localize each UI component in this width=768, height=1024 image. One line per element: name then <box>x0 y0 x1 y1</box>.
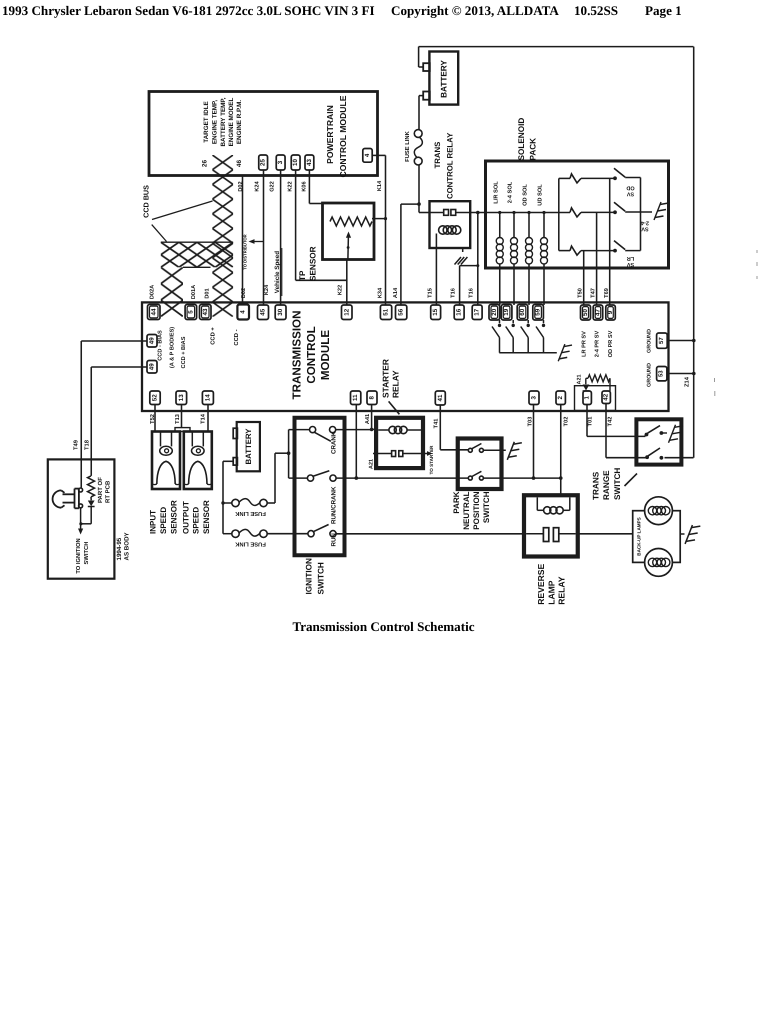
diode (key switch box) <box>79 497 94 526</box>
TCM pin 1 <box>583 391 591 405</box>
labels LR/2-4/OD PR SV <box>582 330 615 357</box>
label A21 starter <box>368 459 374 469</box>
svg-text:SWITCH: SWITCH <box>317 562 326 594</box>
svg-text:POSITION: POSITION <box>472 491 481 529</box>
TCM pin 11 <box>351 391 361 405</box>
PNP lower contact set <box>468 471 483 480</box>
svg-text:D02: D02 <box>241 288 247 298</box>
header version <box>574 3 618 18</box>
svg-text:SPEED: SPEED <box>192 507 201 534</box>
transmission control module box <box>142 302 669 411</box>
svg-text:G22: G22 <box>270 181 276 192</box>
label A21 <box>577 375 583 385</box>
wire D02 (PCM to TCM 4) <box>242 176 244 306</box>
wire K22 (PCM 10 to TCM 12 via TP sensor) <box>296 170 347 305</box>
svg-text:19: 19 <box>503 308 510 315</box>
output speed sensor <box>184 432 212 490</box>
svg-text:T14: T14 <box>201 413 207 424</box>
fuse link (run/crank feed) <box>223 499 267 507</box>
svg-text:T13: T13 <box>175 414 181 424</box>
PCM pin 3 <box>276 155 285 170</box>
svg-text:TRANS: TRANS <box>592 471 601 500</box>
PARK NEUTRAL POSITION SWITCH label <box>452 491 491 529</box>
svg-text:PARK: PARK <box>452 491 461 513</box>
svg-text:ENGINE R.P.M.: ENGINE R.P.M. <box>236 100 243 145</box>
svg-text:REVERSE: REVERSE <box>536 563 546 604</box>
svg-text:8: 8 <box>369 395 376 399</box>
wire fuse link to trans control relay <box>419 165 430 213</box>
svg-text:20: 20 <box>491 308 498 315</box>
svg-text:2: 2 <box>557 395 564 399</box>
TCM internal ground <box>558 344 572 361</box>
svg-text:FUSE LINK: FUSE LINK <box>234 541 265 548</box>
svg-text:TRANS: TRANS <box>433 142 442 169</box>
key switch contacts <box>79 488 83 508</box>
TCM pin 19 <box>501 305 512 321</box>
wire T03 (TCM 3) <box>533 405 535 479</box>
svg-text:TO STARTER: TO STARTER <box>429 445 434 475</box>
svg-text:OD PR SV: OD PR SV <box>608 330 614 357</box>
label K24 upper <box>255 180 261 191</box>
svg-text:K24: K24 <box>264 284 270 295</box>
pressure switch branch LR (bottom) <box>559 246 614 255</box>
SOLENOID PACK label <box>517 118 538 161</box>
svg-text:D01: D01 <box>205 288 211 298</box>
starter relay contact <box>373 451 423 457</box>
reverse lamp relay contact <box>526 528 576 542</box>
svg-text:T01: T01 <box>588 417 594 427</box>
TCM pin 16 <box>454 305 464 320</box>
label T52 <box>150 414 156 424</box>
TCM pin 42 <box>602 391 610 404</box>
GROUND labels <box>646 329 652 387</box>
svg-text:BACK-UP LAMPS: BACK-UP LAMPS <box>637 517 642 555</box>
label K14 <box>377 180 383 191</box>
label T50 <box>578 288 584 298</box>
label D01A <box>191 285 197 299</box>
svg-text:LR: LR <box>627 255 634 261</box>
scan artifact marks <box>715 250 758 396</box>
svg-text:K06: K06 <box>302 181 308 191</box>
svg-text:CCD BUS: CCD BUS <box>142 185 151 218</box>
label T13 <box>175 414 181 424</box>
label T14 <box>201 413 207 424</box>
svg-text:1994-95: 1994-95 <box>116 537 123 560</box>
svg-text:K22: K22 <box>288 181 294 191</box>
label RUN/CRANK <box>330 486 337 524</box>
TP SENSOR label <box>298 246 318 281</box>
label A14 <box>393 287 399 298</box>
ground bus wire Z14 <box>693 47 695 458</box>
svg-text:SENSOR: SENSOR <box>202 500 211 534</box>
BACK-UP LAMPS label <box>637 517 642 555</box>
svg-text:T16: T16 <box>451 288 457 298</box>
svg-text:9: 9 <box>607 310 614 314</box>
svg-text:CCD - BIAS: CCD - BIAS <box>158 330 164 361</box>
trans control relay ground <box>455 248 468 265</box>
FUSE LINK label 2 <box>234 541 265 548</box>
svg-text:UD SOL: UD SOL <box>538 184 544 206</box>
svg-text:56: 56 <box>398 308 405 315</box>
svg-text:ENGINE MODEL: ENGINE MODEL <box>228 98 235 147</box>
svg-text:FUSE LINK: FUSE LINK <box>234 510 265 517</box>
wire T52 (TCM 52 to input speed sensor) <box>154 405 156 432</box>
label 2-4 SV <box>640 220 649 232</box>
svg-text:TRANSMISSION: TRANSMISSION <box>291 311 304 400</box>
label A41 <box>365 414 371 424</box>
svg-text:43: 43 <box>202 308 209 315</box>
svg-text:D02: D02 <box>238 181 244 191</box>
PCM internal signal list text <box>203 97 243 146</box>
svg-text:SWITCH: SWITCH <box>83 542 90 565</box>
svg-text:4: 4 <box>364 153 371 157</box>
wire to ignition switch with arrow <box>78 508 83 535</box>
input speed sensor <box>152 432 180 490</box>
svg-text:SWITCH: SWITCH <box>613 468 622 500</box>
svg-text:OUTPUT: OUTPUT <box>182 501 191 534</box>
PNP upper contact set <box>468 444 483 453</box>
svg-text:TO IGNITION: TO IGNITION <box>75 538 82 573</box>
svg-text:SV: SV <box>627 261 635 267</box>
resistor part of RT PCB <box>88 476 95 497</box>
battery (ignition feed) box <box>233 422 260 471</box>
svg-text:CRANK: CRANK <box>330 431 337 454</box>
svg-text:2-4 SOL: 2-4 SOL <box>508 181 514 203</box>
powertrain control module box <box>149 92 378 176</box>
svg-text:CCD -: CCD - <box>233 329 240 345</box>
TCM pin 13 <box>176 391 187 405</box>
svg-text:T52: T52 <box>150 414 156 424</box>
backup lamp 2 <box>645 549 673 577</box>
wire T01 (TCM 1 to trans range switch) <box>587 405 645 437</box>
svg-text:K24: K24 <box>255 180 261 191</box>
wire T42 (TCM 42 to trans range switch) <box>606 404 647 458</box>
wire G22 (PCM 3 to TCM 30) <box>280 170 282 305</box>
wire relay to backup lamps <box>578 533 633 535</box>
TO STARTER arrow <box>423 445 434 475</box>
wire run/crank to park neutral switch <box>336 477 469 479</box>
wire K24 (PCM 25 to TCM 45) <box>263 170 265 305</box>
TCM pin 57 (ground) <box>657 333 668 348</box>
svg-text:45: 45 <box>260 308 267 315</box>
svg-text:RUN: RUN <box>330 533 337 547</box>
label K06 <box>302 181 308 191</box>
label CRANK <box>330 431 337 454</box>
backup lamp 1 <box>645 497 673 525</box>
svg-text:LAMP: LAMP <box>546 580 556 605</box>
svg-text:PART OF: PART OF <box>97 477 104 503</box>
svg-text:TP: TP <box>298 270 307 281</box>
TCM solenoid driver switches <box>492 320 545 353</box>
svg-text:T50: T50 <box>578 288 584 298</box>
TRS upper contact set <box>645 426 667 437</box>
1994-95 AS BODY label <box>116 531 131 560</box>
header line 1: vehicle description <box>2 3 375 18</box>
TCM pin 14 <box>202 391 213 405</box>
TCM pin 43 <box>200 305 212 320</box>
svg-text:T41: T41 <box>434 419 440 429</box>
wire TRS to ground bus <box>665 457 694 459</box>
svg-text:K14: K14 <box>377 180 383 191</box>
svg-text:A41: A41 <box>365 414 371 424</box>
CCD BUS leader line 2 <box>152 225 167 242</box>
TRANS RANGE SWITCH label <box>592 468 638 500</box>
relay output wire to solenoid pack <box>470 212 570 214</box>
TCM pin 17 <box>472 305 482 320</box>
label K34 <box>377 287 383 298</box>
svg-text:AS BODY: AS BODY <box>124 531 131 560</box>
CCD BUS leader line 1 <box>152 201 213 220</box>
svg-text:Transmission Control Schematic: Transmission Control Schematic <box>292 619 474 634</box>
PCM pin 43 <box>305 155 314 170</box>
ignition feed bus <box>288 430 290 479</box>
OD pressure switch <box>613 168 640 180</box>
svg-text:SENSOR: SENSOR <box>309 246 318 281</box>
svg-text:FUSE LINK: FUSE LINK <box>404 130 411 161</box>
pressure switch branch 2-4 (middle) <box>570 208 614 217</box>
PCM pin 4 <box>363 149 372 163</box>
diode (TCM internal) <box>583 378 590 391</box>
svg-text:42: 42 <box>603 393 610 400</box>
TCM pin 52 <box>150 391 160 405</box>
svg-text:BATTERY: BATTERY <box>440 60 449 98</box>
svg-text:OD SOL: OD SOL <box>523 184 529 206</box>
svg-text:GROUND: GROUND <box>646 329 652 353</box>
svg-text:CONTROL: CONTROL <box>305 326 318 383</box>
wire T18 (TCM 49b to resistor) <box>91 367 147 476</box>
svg-text:4: 4 <box>240 310 247 314</box>
2-4 pressure switch <box>613 202 640 214</box>
svg-text:60: 60 <box>519 308 526 315</box>
PCM pin 26 label <box>202 160 209 168</box>
TP sensor output tap to K14 <box>372 217 387 220</box>
svg-text:2-4 PR SV: 2-4 PR SV <box>595 331 601 358</box>
pressure switch branch OD (top) <box>559 174 614 183</box>
svg-text:OD: OD <box>626 185 634 191</box>
resistor A21 <box>586 375 610 382</box>
TCM pin 50 <box>581 305 591 320</box>
label D01 <box>205 288 211 298</box>
svg-text:T69: T69 <box>604 288 610 298</box>
svg-text:50: 50 <box>582 309 589 316</box>
svg-text:A21: A21 <box>368 459 374 469</box>
label T49 <box>72 439 79 450</box>
TCM pin 53 (ground) <box>657 367 667 381</box>
wire TCM 57 to ground bus <box>667 339 695 343</box>
svg-text:PACK: PACK <box>529 138 538 161</box>
wire K06 (PCM 43 to TP sensor) <box>309 170 322 204</box>
TCM pin 47 <box>593 305 603 320</box>
svg-text:INPUT: INPUT <box>149 510 158 534</box>
svg-text:BATTERY TEMP,: BATTERY TEMP, <box>220 97 227 146</box>
svg-text:RELAY: RELAY <box>556 576 566 605</box>
backup lamp frame <box>633 511 681 563</box>
svg-text:25: 25 <box>260 159 267 166</box>
label T16 b <box>468 288 474 298</box>
label T18 <box>84 439 91 450</box>
STARTER RELAY label <box>380 359 400 414</box>
svg-text:Vehicle Speed: Vehicle Speed <box>274 251 281 294</box>
svg-text:5: 5 <box>187 310 194 314</box>
svg-text:52: 52 <box>152 394 159 401</box>
svg-text:K34: K34 <box>377 287 383 298</box>
TCM pin 20 <box>489 305 500 321</box>
PCM label <box>325 95 348 177</box>
TCM pin 12 <box>342 305 353 320</box>
wire fuse link 1 to ignition feed bus <box>267 451 290 503</box>
CCD bus twisted-pair column (PCM to TCM) <box>212 155 233 317</box>
ignition switch RUN contacts <box>308 525 336 537</box>
TCM pin 30 <box>275 305 286 320</box>
svg-text:STARTER: STARTER <box>380 359 390 398</box>
svg-text:SV: SV <box>641 226 649 232</box>
fuse link (trans control relay feed) <box>414 130 422 165</box>
PART OF RT PCB labels <box>97 477 112 503</box>
TCM pin 60 <box>517 305 528 321</box>
label D02A <box>150 285 156 299</box>
ignition switch box <box>295 418 345 556</box>
TCM pin 51 <box>380 305 391 320</box>
wire T69 (OD sw to TCM 9) <box>609 178 611 305</box>
svg-text:51: 51 <box>383 308 390 315</box>
label T15 <box>428 288 434 298</box>
solenoid pack box <box>486 161 669 268</box>
svg-text:10.52SS: 10.52SS <box>574 3 618 18</box>
key switch symbol <box>53 489 79 509</box>
svg-text:SV: SV <box>627 191 635 197</box>
solenoid labels <box>492 181 543 206</box>
FUSE LINK label 1 <box>234 510 265 517</box>
svg-text:D02A: D02A <box>150 285 156 299</box>
PCM pin 25 <box>259 155 268 170</box>
TCM pin 5 <box>185 305 197 320</box>
svg-text:A14: A14 <box>393 287 399 298</box>
svg-text:(A & P BODIES): (A & P BODIES) <box>169 327 176 368</box>
svg-text:RANGE: RANGE <box>602 470 611 500</box>
svg-text:1993 Chrysler Lebaron Sedan V6: 1993 Chrysler Lebaron Sedan V6-181 2972c… <box>2 3 375 18</box>
wire T49 (TCM 49 to key switch) <box>81 341 147 488</box>
label Vehicle Speed <box>274 248 282 296</box>
label D02 lower <box>241 288 247 298</box>
svg-text:43: 43 <box>306 159 313 166</box>
svg-text:IGNITION: IGNITION <box>305 558 314 594</box>
wire bus to crank contact <box>289 429 310 431</box>
svg-text:1: 1 <box>584 395 591 399</box>
svg-text:T47: T47 <box>591 288 597 298</box>
svg-text:2-4: 2-4 <box>640 220 649 226</box>
svg-text:14: 14 <box>204 394 211 401</box>
wire PNP output to backup lamp feed <box>483 476 562 480</box>
trans control relay coil <box>439 226 461 234</box>
label OD SV <box>626 185 634 197</box>
label T03 <box>528 417 534 427</box>
wire battery positive to top rail <box>419 47 424 67</box>
TCM pin 44 <box>148 305 161 320</box>
TCM label <box>291 311 333 400</box>
wire T16 junction to TCM 17 <box>476 211 480 305</box>
svg-text:57: 57 <box>658 337 665 344</box>
svg-text:15: 15 <box>432 308 439 315</box>
trans control relay coil wire to TCM 15 <box>435 234 437 306</box>
wire bus to run/crank contact <box>289 477 308 479</box>
svg-text:Page 1: Page 1 <box>645 3 682 18</box>
label G22 <box>270 181 276 192</box>
1994-95 AS body box <box>48 459 115 578</box>
svg-text:SPEED: SPEED <box>159 507 168 534</box>
wire T47 (2-4 sw to TCM 47) <box>596 212 598 305</box>
svg-text:49: 49 <box>149 363 156 370</box>
LR pressure switch <box>613 241 640 253</box>
label T41 <box>434 419 440 429</box>
svg-text:12: 12 <box>343 308 350 315</box>
TRS ground <box>669 425 684 443</box>
svg-text:47: 47 <box>594 309 601 316</box>
TRS lower contact set <box>645 448 663 460</box>
IGNITION SWITCH label <box>305 558 326 594</box>
wire battery to fuse link <box>419 96 423 130</box>
svg-text:T16: T16 <box>468 288 474 298</box>
svg-text:3: 3 <box>277 160 284 164</box>
CCD bus A/P-bodies column <box>161 267 211 316</box>
svg-text:CCD +: CCD + <box>210 327 217 345</box>
svg-text:59: 59 <box>535 308 542 315</box>
svg-text:10: 10 <box>292 159 299 166</box>
CCD internal labels <box>210 327 241 346</box>
pressure switch feed bus <box>558 178 560 250</box>
TO DISTRIBUTOR arrow <box>242 234 263 269</box>
svg-text:Copyright © 2013, ALLDATA: Copyright © 2013, ALLDATA <box>391 3 559 18</box>
CCD bus splice block (wide hatch) <box>161 242 233 267</box>
svg-text:T42: T42 <box>607 417 613 427</box>
starter relay box <box>376 418 423 468</box>
PNP upper output to ground <box>483 449 505 451</box>
svg-text:SOLENOID: SOLENOID <box>517 118 526 161</box>
svg-text:SWITCH: SWITCH <box>482 491 491 523</box>
reverse lamp relay coil <box>537 497 570 513</box>
trans control relay box <box>430 201 471 248</box>
svg-text:46: 46 <box>236 160 243 168</box>
svg-text:L/R SOL: L/R SOL <box>492 181 499 204</box>
svg-text:11: 11 <box>352 394 359 401</box>
TRANS CONTROL RELAY label <box>433 132 455 199</box>
label T02 <box>564 417 570 427</box>
TCM pin 3 <box>529 391 539 405</box>
svg-text:13: 13 <box>178 394 185 401</box>
svg-text:16: 16 <box>456 308 463 315</box>
label T16 a <box>451 288 457 298</box>
svg-text:30: 30 <box>277 308 284 315</box>
svg-text:T18: T18 <box>84 439 91 450</box>
label T42 <box>607 417 613 427</box>
svg-text:TO DISTRIBUTOR: TO DISTRIBUTOR <box>242 234 247 269</box>
reverse lamp relay box <box>524 495 578 556</box>
svg-text:NEUTRAL: NEUTRAL <box>462 491 471 529</box>
label Z14 <box>685 376 691 387</box>
TCM pin 41 <box>435 391 445 405</box>
solenoid coils L/R 2-4 OD UD with wires to TCM pins <box>496 211 547 305</box>
svg-text:SENSOR: SENSOR <box>170 500 179 534</box>
svg-text:ENGINE TEMP,: ENGINE TEMP, <box>212 100 219 145</box>
svg-text:K22: K22 <box>337 285 343 295</box>
wire T41 (TCM 41 to PNP) <box>440 405 468 450</box>
svg-text:GROUND: GROUND <box>646 363 652 387</box>
sensor bridge <box>175 428 190 432</box>
ignition switch CRANK contacts <box>310 427 336 442</box>
svg-text:17: 17 <box>474 308 481 315</box>
svg-text:D01A: D01A <box>191 285 197 299</box>
wire A21 to pin 42 <box>609 378 611 391</box>
OUTPUT SPEED SENSOR label <box>182 500 211 534</box>
